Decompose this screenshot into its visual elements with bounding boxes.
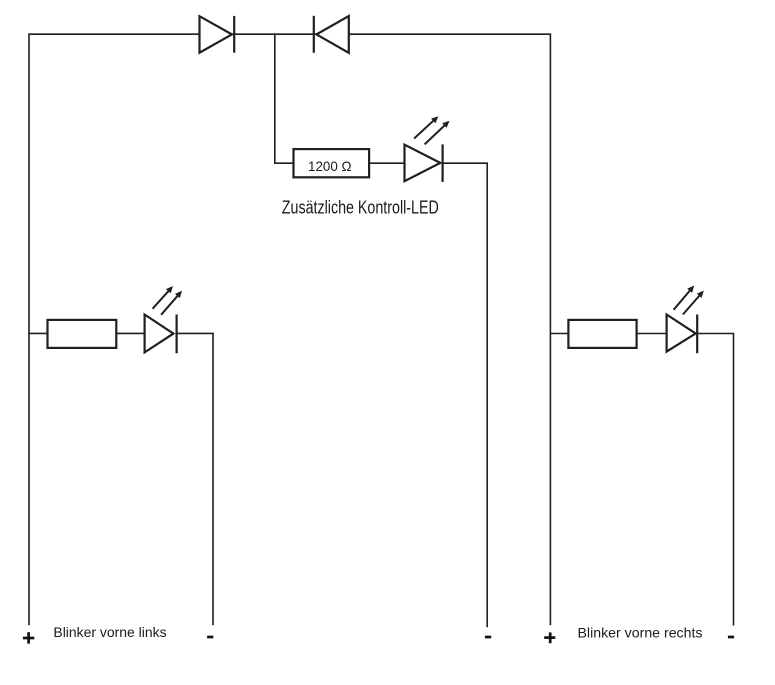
svg-text:Zusätzliche Kontroll-LED: Zusätzliche Kontroll-LED [282, 197, 439, 217]
wire LED D4 cathode to negative terminal [177, 333, 213, 624]
node top junction drop to control branch [275, 34, 294, 163]
wire right rail tap to resistor R3 [550, 333, 568, 335]
wire resistor R3 to LED D5 [637, 333, 667, 335]
terminal minus left branch [207, 636, 213, 639]
wire resistor R2 to LED D3 [369, 162, 404, 164]
LED D3 emission arrow 2 [425, 124, 446, 144]
LED D5 right [667, 315, 696, 352]
LED D3 emission arrow 1 [414, 120, 434, 139]
resistor R1 left [48, 320, 117, 348]
wire resistor R1 to LED D4 [116, 332, 144, 334]
diode D2 [317, 16, 349, 53]
wire LED D5 cathode to negative terminal [697, 334, 733, 625]
LED D4 left [145, 315, 174, 353]
resistor R3 right [568, 320, 636, 348]
wire top rail [29, 34, 550, 624]
terminal plus left [23, 637, 34, 640]
wire LED D3 cathode to negative terminal [443, 163, 488, 626]
LED D4 emission arrow 2 [161, 295, 179, 315]
terminal minus right branch [728, 636, 734, 639]
LED D5 emission arrow 1 [674, 290, 691, 310]
wire left rail tap to resistor R1 [29, 332, 48, 334]
terminal plus right [544, 636, 555, 639]
diode D1 [200, 16, 232, 53]
LED D3 Kontroll-LED [405, 145, 441, 182]
LED D4 emission arrow 1 [153, 290, 170, 309]
LED D5 emission arrow 2 [683, 295, 701, 315]
resistor R2 1200 Ohm [294, 149, 370, 177]
svg-text:1200 Ω: 1200 Ω [308, 158, 352, 174]
svg-text:Blinker vorne links: Blinker vorne links [53, 624, 166, 640]
terminal minus control branch [485, 636, 491, 639]
svg-text:Blinker vorne rechts: Blinker vorne rechts [578, 624, 703, 640]
